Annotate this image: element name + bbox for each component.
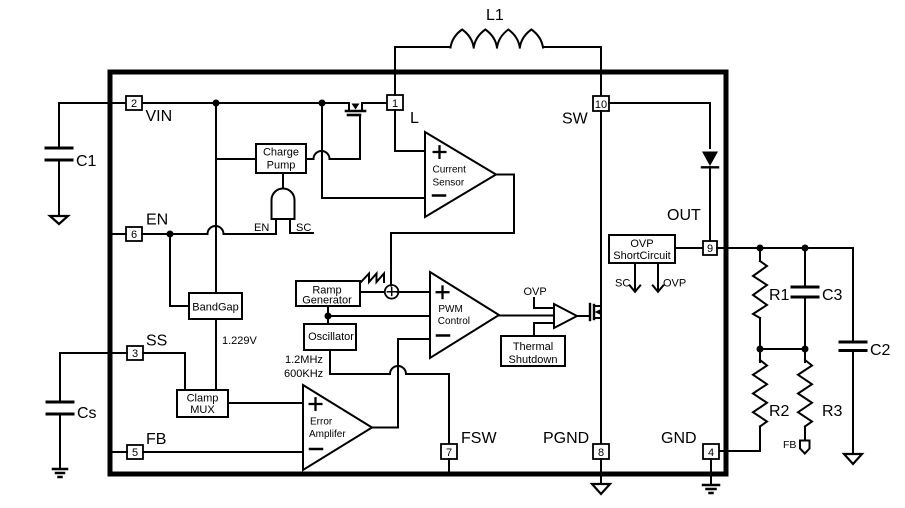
- svg-text:10: 10: [595, 99, 607, 111]
- block thermal shutdown: [501, 323, 565, 366]
- wire VIN to BandGap vertical: [215, 103, 217, 293]
- pin 5 FB: [113, 431, 166, 459]
- svg-text:BandGap: BandGap: [192, 302, 238, 314]
- pin 10 SW: [562, 96, 609, 128]
- wire mid junction row: [760, 348, 805, 350]
- svg-text:C2: C2: [870, 342, 891, 359]
- block charge pump: [256, 144, 306, 173]
- op-amp error amplifier: [303, 385, 372, 470]
- pin 7 FSW: [441, 430, 497, 472]
- svg-text:C1: C1: [76, 153, 97, 170]
- svg-text:1.2MHz: 1.2MHz: [285, 354, 323, 366]
- wire ramp generator to summing node: [360, 291, 385, 293]
- wire output rail: [717, 247, 853, 249]
- wire OVP flag arrow: [653, 263, 686, 292]
- op-amp current sensor: [425, 132, 496, 217]
- svg-text:4: 4: [708, 447, 714, 459]
- resistor R3: [798, 349, 843, 441]
- gate U2 AND: [254, 173, 313, 234]
- capacitor C2: [840, 248, 891, 454]
- wire SS external to Cs: [60, 353, 127, 402]
- ground PGND: [592, 484, 610, 494]
- svg-text:PGND: PGND: [543, 430, 589, 447]
- svg-text:Sensor: Sensor: [433, 178, 465, 189]
- node mid junction C3R3: [802, 346, 809, 353]
- node mid junction R1R2: [757, 346, 764, 353]
- svg-text:9: 9: [707, 243, 713, 255]
- svg-text:1.229V: 1.229V: [222, 335, 258, 347]
- wire summing node to PWM plus: [398, 291, 431, 293]
- svg-text:R3: R3: [822, 403, 843, 420]
- svg-text:MUX: MUX: [190, 404, 215, 416]
- wire pin1 to current sensor plus: [395, 110, 425, 151]
- svg-text:FSW: FSW: [461, 430, 497, 447]
- wire EN to AND gate with hop: [142, 226, 276, 234]
- svg-text:R1: R1: [769, 287, 790, 304]
- svg-text:SC: SC: [615, 278, 630, 290]
- inductor L1: [451, 7, 544, 48]
- svg-text:L1: L1: [486, 7, 504, 24]
- svg-text:Amplifer: Amplifer: [309, 429, 346, 440]
- wire L1 to pin10: [543, 47, 601, 96]
- wire SC flag arrow: [615, 263, 640, 292]
- ground C1: [50, 216, 68, 224]
- svg-text:OVP: OVP: [663, 278, 686, 290]
- wire Clamp MUX to error amp plus: [228, 402, 303, 404]
- svg-text:Oscillator: Oscillator: [308, 331, 354, 343]
- svg-text:SS: SS: [146, 333, 167, 350]
- pin 4 GND: [661, 430, 719, 485]
- wire junction to PWM middle input: [328, 315, 430, 317]
- capacitor C1: [46, 103, 97, 215]
- wire PWM output to driver: [499, 315, 554, 317]
- svg-text:L: L: [410, 110, 419, 127]
- svg-text:OVP: OVP: [524, 286, 547, 298]
- wire error amp output to PWM minus: [372, 339, 430, 428]
- wire charge pump output to Q1 gate with hop: [306, 151, 360, 159]
- svg-text:FB: FB: [146, 431, 166, 448]
- pin 9 OUT: [703, 241, 717, 255]
- svg-text:OUT: OUT: [667, 207, 701, 224]
- svg-text:Cs: Cs: [77, 405, 97, 422]
- diode D1: [702, 152, 718, 168]
- block Clamp MUX: [177, 390, 228, 417]
- block BandGap: [189, 293, 242, 319]
- svg-text:SC: SC: [296, 222, 311, 234]
- svg-text:Clamp: Clamp: [187, 393, 219, 405]
- node rail junction C3: [802, 245, 809, 252]
- svg-text:GND: GND: [661, 430, 697, 447]
- svg-text:VIN: VIN: [146, 108, 173, 125]
- svg-text:SW: SW: [562, 111, 589, 128]
- pin 8 PGND: [543, 430, 609, 484]
- svg-text:OVP: OVP: [630, 238, 653, 250]
- wire ramp generator to oscillator: [327, 306, 329, 324]
- node OVP label above driver: [524, 286, 555, 308]
- svg-text:FB: FB: [783, 439, 796, 451]
- svg-text:3: 3: [132, 348, 138, 360]
- node FB tag: [783, 439, 810, 454]
- svg-text:EN: EN: [146, 212, 168, 229]
- summing node: [385, 285, 399, 299]
- transistor Q2 NMOS switch: [590, 304, 601, 320]
- node EN junction: [167, 231, 174, 238]
- node oscillator junction: [325, 313, 332, 320]
- ground Cs earth: [53, 469, 67, 477]
- node rail junction R1: [757, 245, 764, 252]
- wire FB to error amp minus: [143, 451, 303, 453]
- ground GND earth: [703, 485, 719, 493]
- block oscillator: [284, 324, 356, 380]
- sawtooth symbol: [361, 274, 384, 283]
- block ramp generator: [296, 281, 360, 307]
- wire EN junction to BandGap: [170, 234, 189, 306]
- svg-text:PWM: PWM: [438, 304, 462, 315]
- wire current sensor output to summing node: [391, 175, 514, 286]
- svg-text:600KHz: 600KHz: [284, 368, 323, 380]
- pin 6 EN: [112, 212, 168, 242]
- wire BandGap 1.229V to Clamp MUX: [216, 319, 258, 390]
- capacitor C3: [792, 248, 843, 349]
- wire SW vertical to PGND: [600, 111, 602, 444]
- svg-text:5: 5: [132, 447, 138, 459]
- wire driver to gate: [577, 315, 589, 317]
- transistor Q1 PMOS pass device: [346, 103, 365, 159]
- wire VIN junction B down to current sensor minus: [322, 103, 425, 198]
- svg-text:C3: C3: [822, 287, 843, 304]
- svg-text:Generator: Generator: [302, 295, 352, 307]
- wire SW to diode: [609, 103, 710, 148]
- wire pin1 up to L1: [395, 47, 450, 95]
- svg-text:R2: R2: [769, 403, 790, 420]
- wire R2 to pin 4: [719, 450, 760, 452]
- svg-text:Charge: Charge: [263, 147, 299, 159]
- wire oscillator to pin 7 FSW with hop: [330, 350, 449, 444]
- svg-text:Error: Error: [310, 417, 333, 428]
- svg-text:2: 2: [131, 98, 137, 110]
- svg-text:1: 1: [392, 98, 398, 110]
- pin 2 VIN: [126, 96, 172, 125]
- ground C2: [844, 454, 862, 464]
- svg-text:8: 8: [598, 447, 604, 459]
- svg-text:ShortCircuit: ShortCircuit: [613, 250, 670, 262]
- capacitor Cs: [47, 402, 97, 468]
- wire OVP block to pin 9: [675, 247, 703, 249]
- node VIN junction A: [213, 100, 220, 107]
- op-amp PWM control: [430, 272, 499, 358]
- block OVP ShortCircuit: [609, 235, 675, 263]
- svg-text:6: 6: [131, 229, 137, 241]
- buffer driver: [554, 304, 577, 328]
- svg-text:Current: Current: [433, 165, 467, 176]
- pin 3 SS: [127, 333, 167, 361]
- node VIN junction B: [319, 100, 326, 107]
- svg-text:Control: Control: [438, 316, 470, 327]
- svg-text:7: 7: [446, 447, 452, 459]
- pin 1 L: [387, 95, 419, 127]
- wire diode to pin 9: [709, 167, 711, 241]
- svg-text:Shutdown: Shutdown: [509, 354, 558, 366]
- resistor R2: [753, 349, 790, 451]
- svg-text:EN: EN: [254, 222, 269, 234]
- svg-text:Pump: Pump: [267, 160, 296, 172]
- wire VIN rail: [59, 102, 387, 104]
- IC boundary U1: [110, 72, 726, 474]
- wire SS to Clamp MUX: [143, 353, 185, 390]
- resistor R1: [753, 248, 790, 349]
- wire charge pump input left: [216, 158, 256, 160]
- svg-text:Thermal: Thermal: [513, 341, 553, 353]
